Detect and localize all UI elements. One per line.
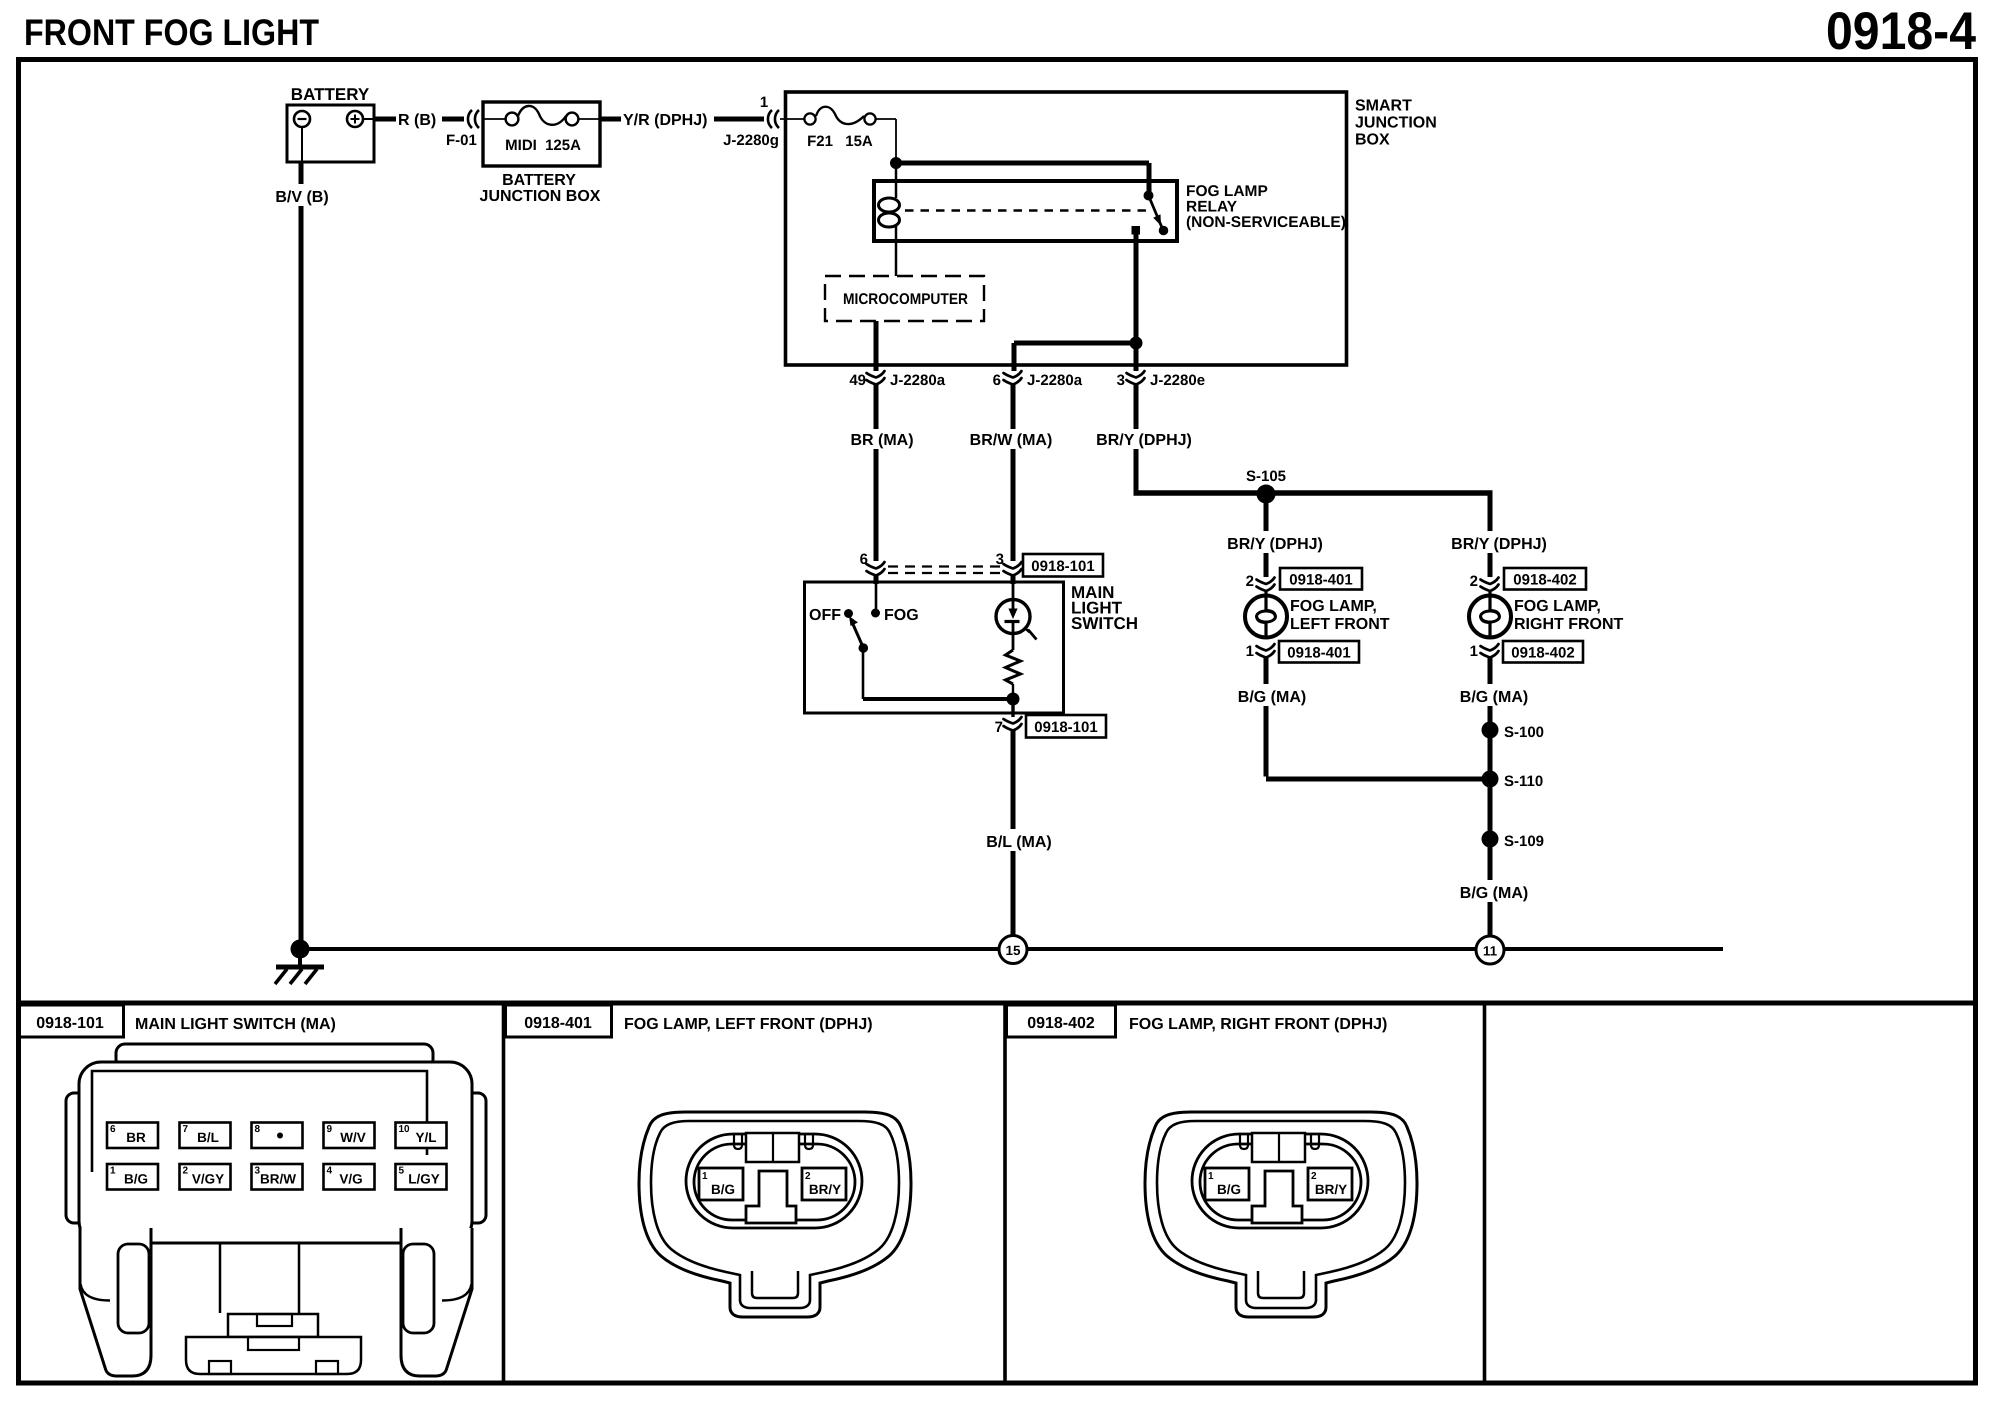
fog lamp left front label bbox=[1290, 598, 1390, 633]
svg-text:0918-401: 0918-401 bbox=[524, 1015, 592, 1032]
connector 402 oval A bbox=[1192, 1134, 1368, 1228]
wire BR/W (MA) bbox=[1011, 384, 1016, 561]
svg-text:F-01: F-01 bbox=[446, 132, 477, 149]
reference box 0918-401 bottom bbox=[1279, 641, 1359, 663]
svg-text:F21: F21 bbox=[807, 133, 833, 150]
reference box 0918-101 bottom bbox=[1026, 715, 1106, 738]
connector symbol pin 7 bbox=[1004, 717, 1022, 731]
microcomputer box bbox=[825, 276, 984, 321]
connector 402 pin 1 B/G bbox=[1205, 1168, 1249, 1200]
wire microcomputer to pin 49 bbox=[874, 321, 879, 371]
svg-text:0918-402: 0918-402 bbox=[1513, 572, 1576, 589]
svg-text:0918-101: 0918-101 bbox=[1034, 719, 1097, 736]
connector 402 oval B bbox=[1200, 1144, 1361, 1220]
connector 101 back tab bbox=[116, 1044, 433, 1068]
svg-text:BATTERY: BATTERY bbox=[291, 85, 370, 104]
reference box 0918-402 top bbox=[1504, 568, 1586, 590]
connector symbol pin 49 J-2280a bbox=[867, 371, 885, 385]
wire BR/Y right branch bbox=[1488, 493, 1493, 577]
ground symbol bbox=[275, 949, 324, 984]
splice label S-105 bbox=[1246, 468, 1286, 485]
wire relay to node bbox=[1134, 234, 1139, 340]
svg-text:BR/Y: BR/Y bbox=[1315, 1182, 1347, 1197]
svg-text:49: 49 bbox=[849, 372, 866, 389]
wire label BR/W (MA) bbox=[970, 432, 1053, 449]
connector label 49 J-2280a bbox=[849, 372, 945, 389]
svg-text:B/G: B/G bbox=[1217, 1182, 1241, 1197]
page number 0918-4 bbox=[1826, 2, 1976, 61]
connector 101 pin 1 B/G bbox=[107, 1164, 158, 1190]
wire label B/G (MA) bottom bbox=[1460, 885, 1528, 902]
contact FOG bbox=[871, 609, 880, 618]
svg-text:S-109: S-109 bbox=[1504, 833, 1544, 850]
svg-text:1: 1 bbox=[760, 94, 768, 111]
table top border bbox=[16, 1001, 1978, 1006]
pin 1 label left bbox=[1246, 643, 1254, 660]
svg-text:MICROCOMPUTER: MICROCOMPUTER bbox=[843, 291, 968, 308]
svg-text:BR/W (MA): BR/W (MA) bbox=[970, 432, 1053, 449]
splice label S-109 bbox=[1504, 833, 1544, 850]
svg-text:FOG: FOG bbox=[884, 607, 919, 624]
svg-text:2: 2 bbox=[183, 1166, 189, 1177]
svg-text:0918-101: 0918-101 bbox=[36, 1015, 104, 1032]
svg-text:0918-4: 0918-4 bbox=[1826, 2, 1976, 61]
svg-text:W/V: W/V bbox=[340, 1130, 366, 1145]
header label FOG LAMP, RIGHT FRONT (DPHJ) bbox=[1129, 1016, 1387, 1033]
wire node to relay switch bbox=[896, 163, 1149, 193]
svg-text:BR/Y: BR/Y bbox=[809, 1182, 841, 1197]
svg-text:J-2280e: J-2280e bbox=[1150, 372, 1205, 389]
connector 101 center channel bbox=[220, 1243, 299, 1313]
wire S-105 bus bbox=[1134, 490, 1493, 496]
svg-text:FOG LAMP,: FOG LAMP, bbox=[1514, 598, 1601, 615]
connector 101 pin 3 BR/W bbox=[252, 1164, 303, 1190]
svg-text:FOG LAMP,: FOG LAMP, bbox=[1290, 598, 1377, 615]
main light switch box bbox=[805, 582, 1064, 713]
svg-text:BATTERY: BATTERY bbox=[502, 172, 576, 189]
resistor bbox=[1006, 650, 1021, 694]
ground connector 11 bbox=[1476, 936, 1504, 964]
svg-text:8: 8 bbox=[255, 1124, 261, 1135]
wire B/L (MA) bbox=[1011, 731, 1016, 946]
svg-text:FOG LAMP, RIGHT FRONT (DPHJ): FOG LAMP, RIGHT FRONT (DPHJ) bbox=[1129, 1016, 1387, 1033]
pin 2 label right bbox=[1470, 573, 1478, 590]
wire switch arm to common bbox=[863, 647, 1013, 699]
splice S-105 bbox=[1257, 485, 1276, 504]
relay switch contact bbox=[1144, 191, 1154, 201]
svg-text:J-2280g: J-2280g bbox=[723, 132, 779, 149]
wire node to pin 3 bbox=[1134, 343, 1139, 371]
wire label B/G (MA) left bbox=[1233, 684, 1311, 706]
connector J-2280g symbol bbox=[768, 110, 779, 128]
header cell 0918-101 bbox=[18, 1005, 124, 1037]
battery label bbox=[291, 85, 370, 104]
node after fuse F21 bbox=[890, 157, 902, 169]
table divider 3 bbox=[1483, 1003, 1487, 1383]
connector label 6 J-2280a bbox=[993, 372, 1083, 389]
svg-text:B/G (MA): B/G (MA) bbox=[1238, 689, 1306, 706]
connector 101 right leg bbox=[401, 1228, 472, 1376]
wire to pin 7 bbox=[1011, 699, 1014, 717]
svg-text:BR/Y (DPHJ): BR/Y (DPHJ) bbox=[1227, 536, 1323, 553]
svg-text:1: 1 bbox=[1246, 643, 1254, 660]
svg-text:1: 1 bbox=[1208, 1171, 1214, 1182]
connector F-01 symbol bbox=[468, 110, 479, 128]
battery junction box label bbox=[480, 172, 601, 205]
wire label B/L (MA) bbox=[986, 834, 1051, 851]
svg-text:0918-101: 0918-101 bbox=[1031, 558, 1094, 575]
svg-text:(NON-SERVICEABLE): (NON-SERVICEABLE) bbox=[1186, 214, 1346, 231]
fuse MIDI 125A bbox=[484, 106, 599, 125]
fog lamp right front label bbox=[1514, 598, 1624, 633]
wire label Y/R (DPHJ) bbox=[623, 112, 707, 129]
header cell 0918-401 bbox=[506, 1005, 612, 1037]
contact OFF bbox=[844, 609, 853, 618]
wire B/V from battery bbox=[301, 127, 302, 946]
svg-text:BR/Y (DPHJ): BR/Y (DPHJ) bbox=[1451, 536, 1547, 553]
svg-text:0918-402: 0918-402 bbox=[1027, 1015, 1095, 1032]
indicator lamp bbox=[996, 584, 1037, 650]
splice label S-100 bbox=[1504, 724, 1544, 741]
svg-text:15: 15 bbox=[1005, 943, 1021, 958]
relay coil bbox=[879, 163, 900, 276]
connector 402 inner shell bbox=[1157, 1121, 1405, 1308]
svg-text:1: 1 bbox=[1470, 643, 1478, 660]
wire B/G left bbox=[1266, 657, 1486, 779]
title FRONT FOG LIGHT bbox=[24, 12, 319, 53]
wire label BR/Y (DPHJ) right bbox=[1446, 531, 1549, 553]
wire stubs into switch bbox=[876, 576, 1013, 584]
wire to FOG contact bbox=[875, 584, 878, 610]
svg-text:BR/Y (DPHJ): BR/Y (DPHJ) bbox=[1096, 432, 1192, 449]
relay switch fixed contact bbox=[1132, 226, 1141, 235]
svg-text:B/G (MA): B/G (MA) bbox=[1460, 689, 1528, 706]
fuse F21 15A bbox=[780, 107, 896, 125]
connector 401 pin 1 B/G bbox=[699, 1168, 743, 1200]
connector label 3 J-2280e bbox=[1117, 372, 1205, 389]
connector symbol fog lamp right pin 2 bbox=[1481, 578, 1499, 592]
svg-text:J-2280a: J-2280a bbox=[1027, 372, 1083, 389]
wire label B/G (MA) right bbox=[1455, 684, 1533, 706]
svg-text:FOG LAMP, LEFT FRONT (DPHJ): FOG LAMP, LEFT FRONT (DPHJ) bbox=[624, 1016, 873, 1033]
wire R (B) to connector F-01 bbox=[442, 117, 464, 122]
connector 401 oval A bbox=[686, 1134, 862, 1228]
connector 402 pin 2 BR/Y bbox=[1308, 1168, 1352, 1200]
svg-text:B/V (B): B/V (B) bbox=[275, 189, 328, 206]
svg-text:S-110: S-110 bbox=[1504, 773, 1543, 790]
svg-text:15A: 15A bbox=[845, 133, 873, 150]
connector 101 right leg inner bbox=[403, 1244, 472, 1333]
svg-text:V/GY: V/GY bbox=[192, 1172, 224, 1187]
wire BR/Y left branch bbox=[1264, 494, 1269, 577]
svg-text:0918-401: 0918-401 bbox=[1289, 572, 1352, 589]
svg-text:2: 2 bbox=[1311, 1171, 1317, 1182]
battery bbox=[287, 105, 374, 162]
svg-text:1: 1 bbox=[110, 1166, 116, 1177]
fog lamp relay box bbox=[874, 181, 1177, 241]
svg-text:B/G: B/G bbox=[124, 1172, 148, 1187]
svg-text:FRONT FOG LIGHT: FRONT FOG LIGHT bbox=[24, 12, 319, 53]
connector symbol fog lamp right pin 1 bbox=[1481, 644, 1499, 658]
svg-text:S-105: S-105 bbox=[1246, 468, 1286, 485]
battery positive terminal bbox=[347, 111, 374, 127]
wire battery to R (B) bbox=[374, 117, 396, 122]
main light switch label bbox=[1071, 583, 1138, 633]
connector 101 pin 4 V/G bbox=[324, 1164, 375, 1190]
reference box 0918-402 bottom bbox=[1503, 641, 1583, 663]
wire BJB to Y/R label bbox=[600, 117, 621, 122]
wire BR (MA) bbox=[874, 384, 879, 561]
dashed link between connectors bbox=[888, 567, 1002, 574]
header cell 0918-402 bbox=[1007, 1005, 1116, 1037]
connector 101 left leg bbox=[80, 1228, 151, 1376]
connector view 0918-101 bbox=[66, 1044, 486, 1376]
relay mechanical link dashed bbox=[905, 209, 1152, 211]
wire Y/R to connector J-2280g bbox=[714, 117, 764, 122]
pin 2 label left bbox=[1246, 573, 1254, 590]
svg-text:Y/L: Y/L bbox=[415, 1130, 436, 1145]
connector symbol pin 3 J-2280e bbox=[1127, 371, 1145, 385]
label OFF bbox=[809, 607, 841, 624]
wire fuse to node bbox=[895, 119, 897, 160]
connector 402 top key rects bbox=[1240, 1133, 1319, 1162]
pin 1 label right bbox=[1470, 643, 1478, 660]
connector 101 pin 6 BR bbox=[107, 1123, 158, 1149]
connector symbol pin 6 J-2280a bbox=[1004, 371, 1022, 385]
fuse label F21 15A bbox=[807, 133, 873, 150]
wire B/G right bbox=[1488, 657, 1493, 946]
svg-text:MAIN LIGHT SWITCH (MA): MAIN LIGHT SWITCH (MA) bbox=[135, 1016, 336, 1033]
connector view 0918-401 bbox=[639, 1112, 911, 1317]
node relay output bbox=[1130, 337, 1143, 350]
wire node to pin 6 bbox=[1014, 343, 1136, 371]
connector 101 pin 2 V/GY bbox=[180, 1164, 231, 1190]
fuse label MIDI 125A bbox=[505, 137, 581, 154]
ground bus bbox=[300, 947, 1723, 951]
reference box 0918-401 top bbox=[1280, 568, 1362, 590]
svg-text:0918-402: 0918-402 bbox=[1511, 645, 1574, 662]
relay switch arm bbox=[1149, 196, 1169, 236]
smart junction box label bbox=[1355, 98, 1437, 149]
connector 101 right wing bbox=[466, 1093, 486, 1223]
connector 401 pin 2 BR/Y bbox=[802, 1168, 846, 1200]
svg-text:10: 10 bbox=[399, 1124, 411, 1135]
connector 401 inner shell bbox=[651, 1121, 899, 1308]
svg-text:L/GY: L/GY bbox=[408, 1172, 440, 1187]
wire label B/V (B) bbox=[272, 184, 332, 206]
connector 401 oval B bbox=[694, 1144, 855, 1220]
fog lamp left front bulb bbox=[1245, 590, 1287, 638]
connector label J-2280g bbox=[723, 132, 779, 149]
ground connector 15 bbox=[999, 936, 1027, 964]
svg-text:BR (MA): BR (MA) bbox=[850, 432, 913, 449]
connector 101 pin 9 W/V bbox=[324, 1123, 375, 1149]
svg-text:RELAY: RELAY bbox=[1186, 199, 1238, 216]
wire label BR/Y (DPHJ) bbox=[1096, 432, 1192, 449]
splice S-109 bbox=[1482, 831, 1499, 848]
svg-text:RIGHT FRONT: RIGHT FRONT bbox=[1514, 616, 1624, 633]
node switch common bbox=[1007, 693, 1020, 706]
svg-text:1: 1 bbox=[702, 1171, 708, 1182]
connector 101 pin 7 B/L bbox=[180, 1123, 231, 1149]
connector 101 latch bbox=[228, 1314, 318, 1337]
svg-text:2: 2 bbox=[805, 1171, 811, 1182]
connector 401 outer shell bbox=[639, 1112, 911, 1317]
svg-text:B/L: B/L bbox=[197, 1130, 219, 1145]
connector label F-01 bbox=[446, 132, 477, 149]
connector symbol pin 3 switch bbox=[1004, 562, 1022, 576]
connector 101 pin 5 L/GY bbox=[396, 1164, 447, 1190]
svg-text:V/G: V/G bbox=[339, 1172, 362, 1187]
header label FOG LAMP, LEFT FRONT (DPHJ) bbox=[624, 1016, 873, 1033]
connector 402 outer shell bbox=[1145, 1112, 1417, 1317]
switch arm with arrow bbox=[849, 616, 868, 653]
label FOG bbox=[884, 607, 919, 624]
connector 402 T key bbox=[1252, 1171, 1302, 1223]
connector 101 pin 8 bbox=[252, 1123, 303, 1149]
svg-text:JUNCTION BOX: JUNCTION BOX bbox=[480, 188, 601, 205]
connector 101 latch base bbox=[186, 1337, 361, 1374]
svg-text:SWITCH: SWITCH bbox=[1071, 614, 1138, 633]
battery negative terminal bbox=[294, 111, 310, 127]
connector 401 tab inner bbox=[752, 1271, 798, 1298]
connector symbol fog lamp left pin 1 bbox=[1257, 644, 1275, 658]
table divider 1 bbox=[502, 1003, 506, 1383]
svg-text:3: 3 bbox=[996, 551, 1004, 568]
svg-text:OFF: OFF bbox=[809, 607, 841, 624]
svg-text:BR: BR bbox=[126, 1130, 146, 1145]
wire label BR (MA) bbox=[850, 432, 913, 449]
svg-text:6: 6 bbox=[110, 1124, 116, 1135]
svg-text:5: 5 bbox=[399, 1166, 405, 1177]
svg-text:125A: 125A bbox=[545, 137, 581, 154]
svg-text:SMART: SMART bbox=[1355, 98, 1412, 115]
connector 402 tab inner bbox=[1258, 1271, 1304, 1298]
svg-text:7: 7 bbox=[183, 1124, 189, 1135]
pin 7 label bbox=[995, 719, 1003, 736]
svg-text:2: 2 bbox=[1246, 573, 1254, 590]
ground node bbox=[291, 940, 310, 959]
header label MAIN LIGHT SWITCH (MA) bbox=[135, 1016, 336, 1033]
table divider 2 bbox=[1003, 1003, 1007, 1383]
svg-text:FOG LAMP: FOG LAMP bbox=[1186, 183, 1268, 200]
svg-text:R (B): R (B) bbox=[398, 112, 436, 129]
svg-text:4: 4 bbox=[327, 1166, 333, 1177]
smart junction box bbox=[786, 92, 1347, 365]
svg-text:B/G: B/G bbox=[711, 1182, 735, 1197]
svg-text:S-100: S-100 bbox=[1504, 724, 1544, 741]
splice S-110 bbox=[1482, 771, 1499, 788]
svg-text:LEFT FRONT: LEFT FRONT bbox=[1290, 616, 1390, 633]
wire BR/Y (DPHJ) bbox=[1134, 384, 1139, 496]
svg-text:6: 6 bbox=[993, 372, 1001, 389]
fog lamp relay label bbox=[1186, 183, 1346, 231]
connector 101 left leg inner bbox=[81, 1244, 150, 1333]
reference box 0918-101 top bbox=[1023, 554, 1103, 577]
pin 1 label bbox=[760, 94, 768, 111]
connector view 0918-402 bbox=[1145, 1112, 1417, 1317]
svg-text:MIDI: MIDI bbox=[505, 137, 537, 154]
svg-text:6: 6 bbox=[860, 551, 868, 568]
wire label R (B) bbox=[398, 112, 436, 129]
svg-text:JUNCTION: JUNCTION bbox=[1355, 115, 1437, 132]
svg-text:Y/R (DPHJ): Y/R (DPHJ) bbox=[623, 112, 707, 129]
svg-text:11: 11 bbox=[1483, 944, 1498, 959]
svg-text:BOX: BOX bbox=[1355, 132, 1390, 149]
battery junction box bbox=[483, 102, 600, 166]
connector 101 left wing bbox=[66, 1093, 86, 1223]
splice S-100 bbox=[1482, 722, 1499, 739]
svg-text:B/G (MA): B/G (MA) bbox=[1460, 885, 1528, 902]
svg-text:0918-401: 0918-401 bbox=[1287, 645, 1350, 662]
fog lamp right front bulb bbox=[1469, 590, 1511, 638]
pin 3 label bbox=[996, 551, 1004, 568]
connector symbol fog lamp left pin 2 bbox=[1257, 578, 1275, 592]
connector 401 top key rects bbox=[734, 1133, 813, 1162]
svg-text:2: 2 bbox=[1470, 573, 1478, 590]
splice label S-110 bbox=[1504, 773, 1543, 790]
svg-text:BR/W: BR/W bbox=[260, 1172, 296, 1187]
svg-text:B/L (MA): B/L (MA) bbox=[986, 834, 1051, 851]
connector 101 body bbox=[79, 1062, 472, 1243]
connector symbol pin 6 switch bbox=[867, 562, 885, 576]
svg-text:J-2280a: J-2280a bbox=[890, 372, 946, 389]
svg-text:9: 9 bbox=[327, 1124, 333, 1135]
connector 101 inner lip bbox=[92, 1071, 427, 1172]
svg-text:7: 7 bbox=[995, 719, 1003, 736]
connector 401 T key bbox=[746, 1171, 796, 1223]
connector 101 pin 10 Y/L bbox=[396, 1123, 447, 1149]
svg-text:3: 3 bbox=[1117, 372, 1125, 389]
wire label BR/Y (DPHJ) left bbox=[1222, 531, 1325, 553]
pin 6 label bbox=[860, 551, 868, 568]
